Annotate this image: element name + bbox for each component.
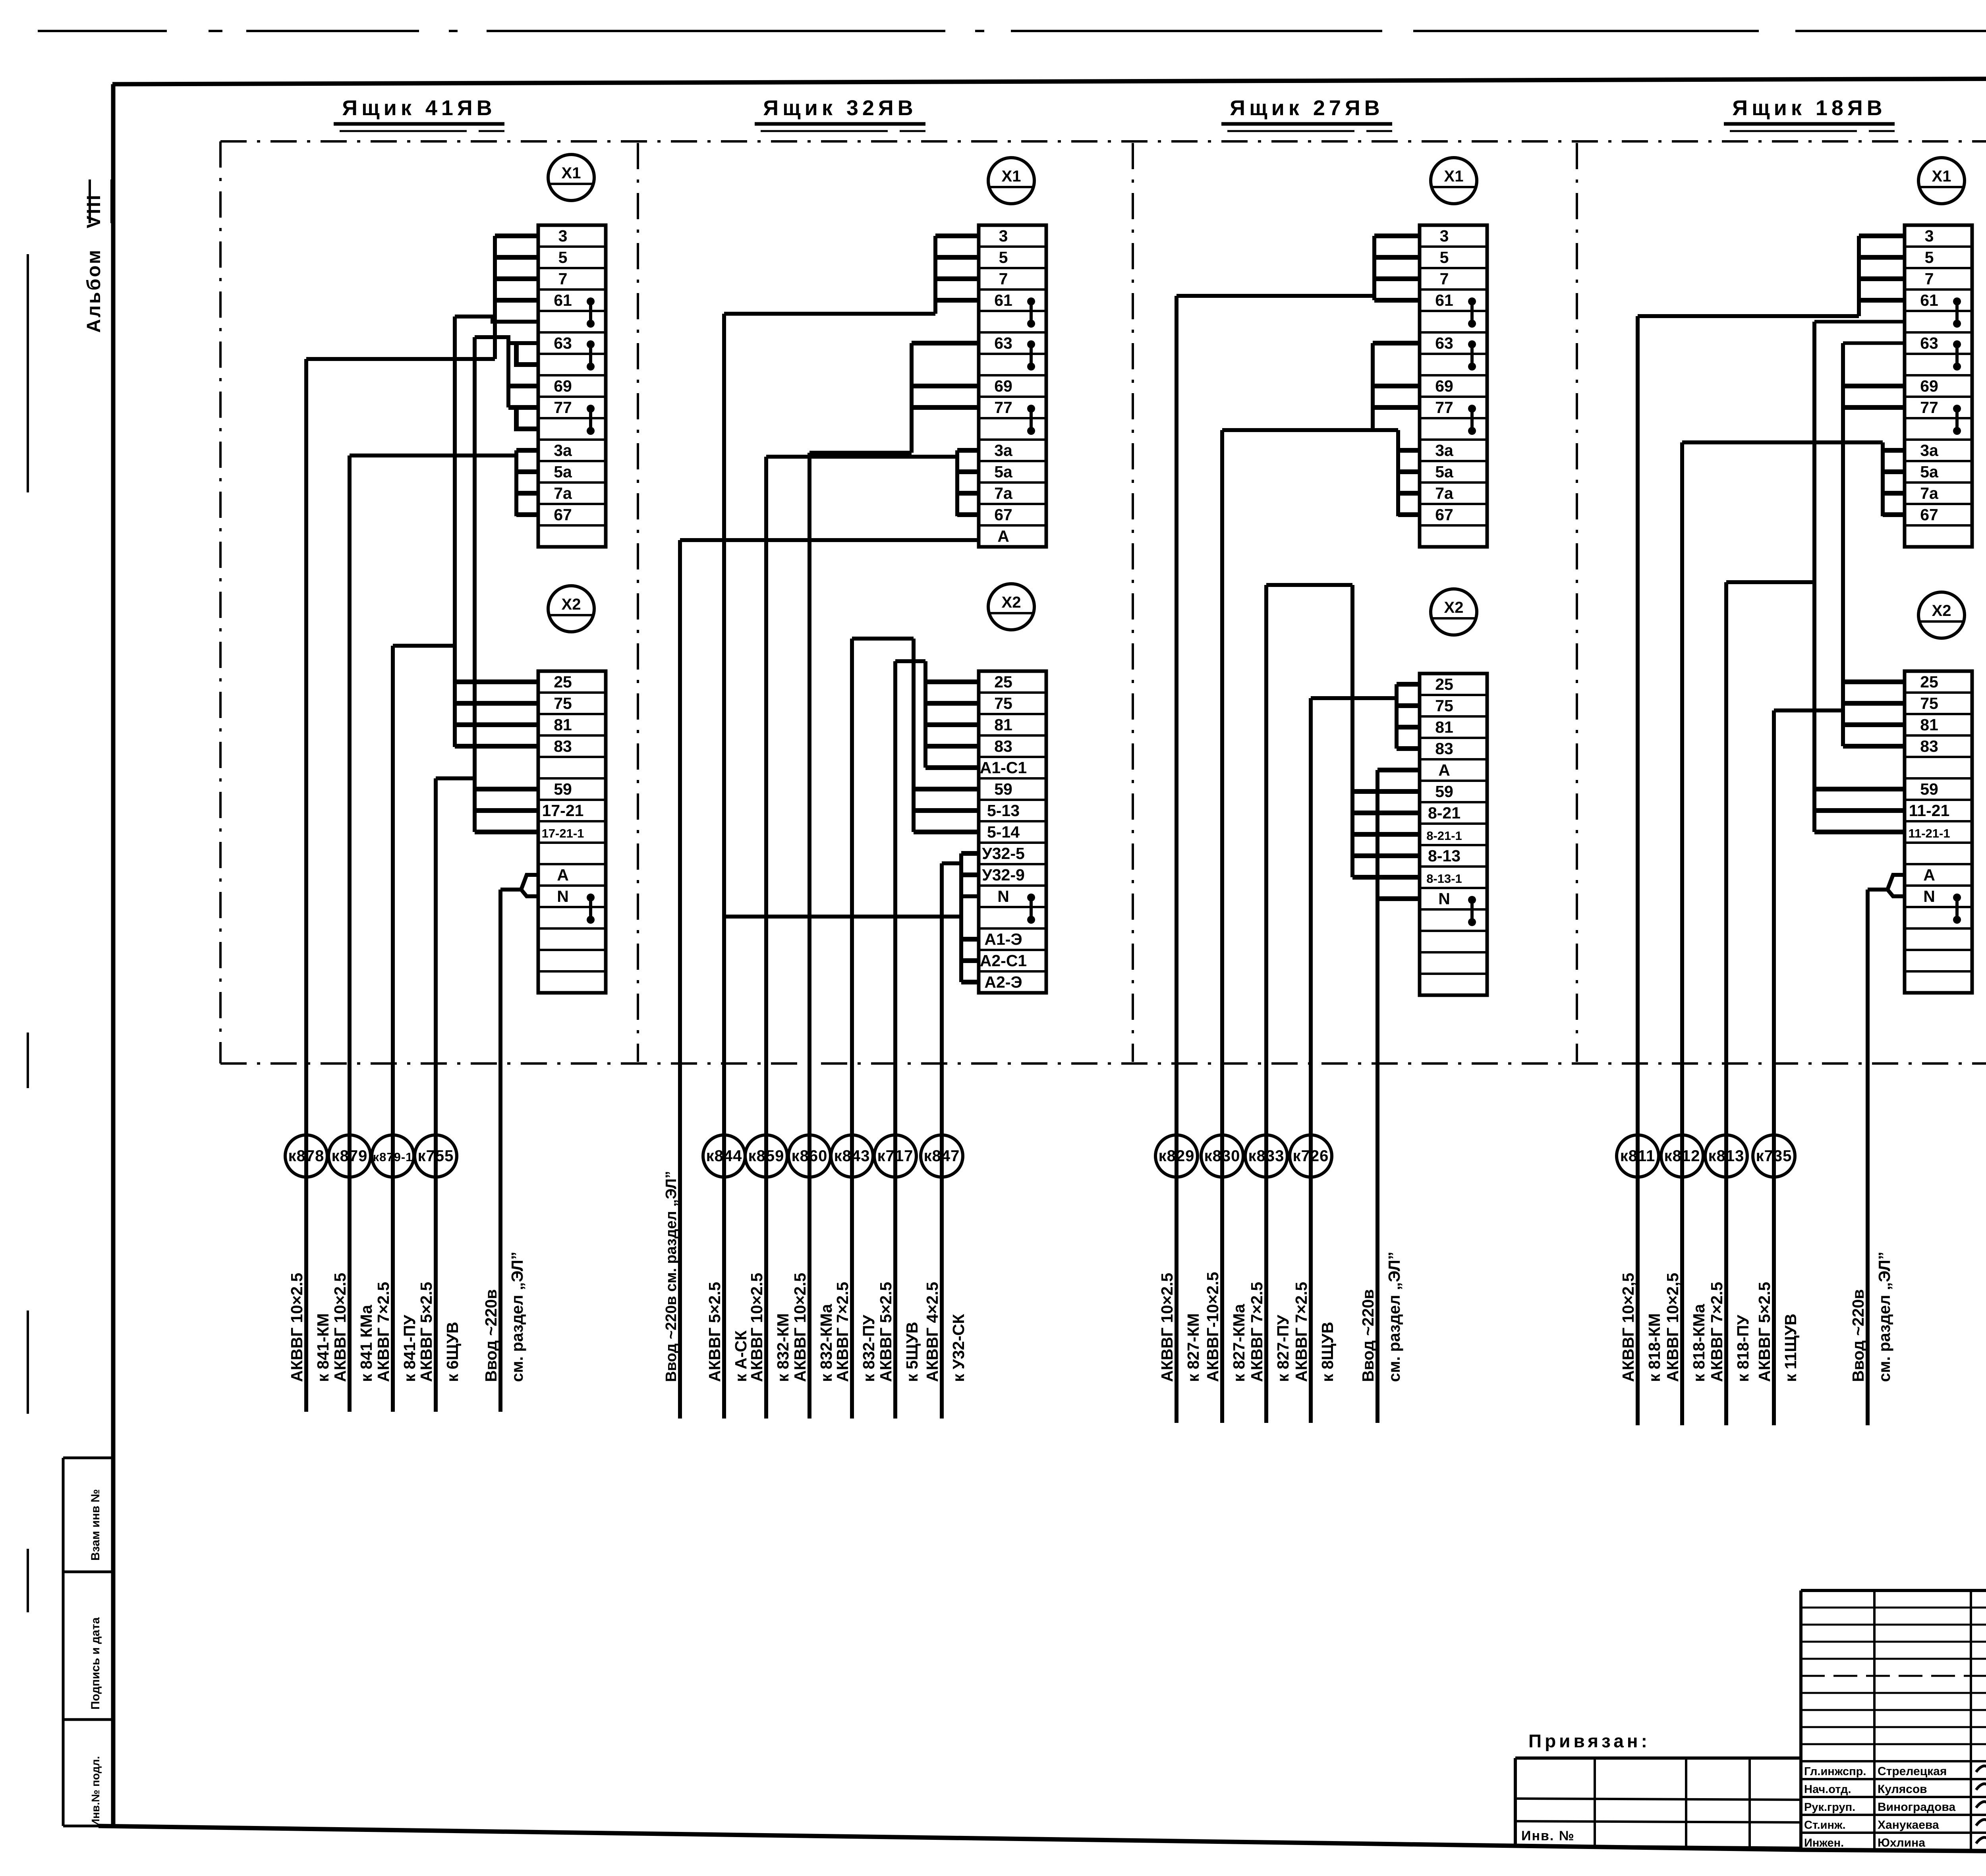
svg-text:АКВВГ 10×2.5: АКВВГ 10×2.5: [791, 1273, 809, 1382]
bus serving X1 terminals 3,5,7,61: [933, 236, 937, 314]
svg-text:АКВВГ 7×2.5: АКВВГ 7×2.5: [1292, 1282, 1310, 1382]
stub to X1 terminal at y=702: [1374, 276, 1420, 281]
stub to X1 terminal at y=756: [1374, 298, 1420, 303]
terminal strip X1 (Ящик 18ЯВ): [1905, 225, 1972, 547]
svg-text:к 827-КМа: к 827-КМа: [1230, 1303, 1248, 1382]
wire к812 horizontal to bus: [1682, 440, 1883, 444]
stub to X1 terminal at y=972: [1843, 384, 1905, 388]
wire к735 branch to X1 terminal 63: [1843, 342, 1905, 345]
svg-text:Инжен.: Инжен.: [1804, 1837, 1844, 1849]
signature squiggle Юхлина: [1976, 1837, 1986, 1847]
connector symbol X2: [988, 584, 1034, 630]
svg-text:к879: к879: [332, 1147, 368, 1165]
svg-text:61: 61: [1920, 291, 1938, 309]
svg-text:3: 3: [999, 227, 1008, 245]
svg-text:Ввод ~220в см. раздел „ЭЛ”: Ввод ~220в см. раздел „ЭЛ”: [663, 1171, 680, 1382]
stub to X2 terminal at y=2419: [961, 958, 979, 963]
connector symbol X2: [1918, 592, 1965, 638]
jumper X1 (Ящик 32ЯВ) rows 4-5: [1027, 297, 1035, 305]
jumper X2 (Ящик 41ЯВ) rows 11-12: [587, 894, 595, 901]
mains feed fork to X2 terminals А and N: [500, 875, 538, 890]
svg-text:83: 83: [1435, 739, 1453, 758]
terminal strip X1 (Ящик 27ЯВ): [1420, 225, 1487, 547]
stub to X2 terminal at y=2041: [914, 808, 979, 813]
svg-text:8-21: 8-21: [1428, 804, 1461, 822]
svg-text:к879-1: к879-1: [373, 1150, 413, 1164]
jumper X2 (Ящик 18ЯВ) rows 11-12: [1953, 894, 1961, 901]
stub to X2 terminal at y=1825: [1843, 722, 1905, 727]
wire к811 horizontal to bus: [1638, 314, 1859, 318]
wire к717 riser to X2: [923, 661, 927, 768]
mains feed wire Ввод ~220в vertical run: [1376, 770, 1379, 1423]
svg-text:7: 7: [558, 270, 568, 288]
stub to X2 terminal at y=2149: [961, 851, 979, 856]
svg-text:АКВВГ 7×2.5: АКВВГ 7×2.5: [1248, 1282, 1266, 1382]
svg-text:83: 83: [1920, 737, 1938, 755]
svg-text:59: 59: [1435, 782, 1453, 801]
svg-text:АКВВГ 5×2.5: АКВВГ 5×2.5: [877, 1282, 895, 1382]
svg-text:67: 67: [1920, 506, 1938, 524]
svg-text:7: 7: [1440, 270, 1449, 288]
bus serving X1 terminals 69,77: [506, 343, 510, 407]
wire к812 vertical run: [1680, 442, 1684, 1425]
wire к879-1 lower vertical run: [391, 646, 395, 1412]
svg-text:5: 5: [999, 248, 1008, 266]
wire к755 branch to X1 terminal 63: [475, 337, 538, 343]
stub to X1 terminal at y=756: [935, 298, 979, 303]
svg-text:У32-5: У32-5: [982, 844, 1025, 863]
left vertical stamp column: [63, 1457, 114, 1459]
cable marker к847: [921, 1135, 963, 1177]
svg-text:к829: к829: [1159, 1147, 1195, 1165]
stub to X1 terminal at y=594: [1374, 234, 1420, 238]
svg-text:7а: 7а: [554, 484, 572, 502]
signature squiggle Стрелецкая: [1976, 1765, 1986, 1776]
cable marker к859: [745, 1135, 787, 1177]
stub to X1 terminal at y=1242: [1398, 491, 1420, 496]
wire к879-1 branch to X1 terminal 61: [455, 317, 538, 322]
stub to X1 terminal at y=702: [935, 276, 979, 281]
stub to X2 terminal at y=2473: [961, 980, 979, 984]
stub to X2 terminal at y=1717: [925, 679, 979, 684]
wire к879 horizontal to bus: [350, 454, 516, 457]
svg-text:к 827-КМ: к 827-КМ: [1184, 1313, 1202, 1382]
cable marker к830: [1201, 1135, 1243, 1177]
svg-text:Юхлина: Юхлина: [1878, 1836, 1925, 1849]
svg-text:к 5ЩУВ: к 5ЩУВ: [903, 1322, 921, 1382]
svg-text:к 818-КМ: к 818-КМ: [1645, 1313, 1663, 1382]
svg-text:АКВВГ 10×2,5: АКВВГ 10×2,5: [1663, 1273, 1682, 1382]
svg-text:Ввод ~220в: Ввод ~220в: [482, 1289, 500, 1382]
cable marker к811: [1617, 1135, 1659, 1177]
svg-text:81: 81: [554, 716, 572, 734]
dash-dot separator between Ящик 27ЯВ and Ящик 18ЯВ: [1576, 143, 1578, 1062]
svg-text:АКВВГ 5×2.5: АКВВГ 5×2.5: [1755, 1282, 1773, 1382]
wire к755 jog: [436, 776, 475, 780]
svg-text:63: 63: [994, 334, 1012, 352]
svg-text:Привязан:: Привязан:: [1528, 1731, 1650, 1751]
stub to X2 terminal at y=2041: [1814, 808, 1905, 813]
terminal strip X2 (Ящик 32ЯВ): [979, 671, 1046, 993]
stub to X2 terminal at y=1993: [1352, 789, 1420, 794]
stub to X1 terminal at y=864: [1373, 341, 1420, 345]
svg-text:к 6ЩУВ: к 6ЩУВ: [443, 1322, 462, 1382]
svg-text:АКВВГ 10×2.5: АКВВГ 10×2.5: [1158, 1273, 1176, 1382]
stub to X2 terminal at y=1771: [1843, 701, 1905, 706]
stub to X1 terminal at y=648: [495, 255, 538, 260]
connector symbol X2: [548, 586, 594, 632]
stub X1 blank row 7: [516, 343, 538, 365]
stub to X1 terminal at y=1026: [912, 405, 979, 410]
terminal strip X2 (Ящик 27ЯВ): [1420, 674, 1487, 995]
svg-text:см. раздел „ЭЛ”: см. раздел „ЭЛ”: [1385, 1252, 1403, 1382]
stub to X1 terminal at y=756: [1859, 298, 1905, 303]
svg-text:3: 3: [1925, 227, 1934, 245]
svg-text:N: N: [557, 887, 569, 905]
connector symbol X2: [1431, 589, 1477, 635]
svg-text:АКВВГ-10×2.5: АКВВГ-10×2.5: [1204, 1272, 1222, 1382]
svg-text:81: 81: [1920, 716, 1938, 734]
bus serving X1 terminals 3а,5а,7а,67: [1396, 430, 1400, 516]
svg-text:к 11ЩУВ: к 11ЩУВ: [1781, 1314, 1800, 1382]
svg-text:X2: X2: [562, 596, 581, 613]
svg-text:АКВВГ 7×2.5: АКВВГ 7×2.5: [1708, 1282, 1726, 1382]
stub to X2 terminal at y=1825: [925, 722, 979, 727]
bus serving X1 terminals 3,5,7,61: [1372, 236, 1376, 300]
svg-text:АКВВГ 10×2,5: АКВВГ 10×2,5: [1619, 1273, 1637, 1382]
svg-text:Ввод ~220в: Ввод ~220в: [1849, 1289, 1867, 1382]
svg-text:А: А: [997, 527, 1009, 545]
stub to X2 terminal at y=2095: [475, 830, 538, 834]
stub to X1 terminal at y=1296: [516, 512, 538, 517]
svg-text:АКВВГ 7×2.5: АКВВГ 7×2.5: [374, 1282, 392, 1382]
signature squiggle Кулясов: [1976, 1783, 1986, 1794]
wire к878 horizontal to bus: [306, 357, 495, 361]
svg-text:А1-С1: А1-С1: [980, 759, 1027, 777]
wire к830 horizontal to bus: [1222, 428, 1398, 432]
bus serving X1 terminals 3а,5а,7а,67: [1881, 442, 1885, 516]
svg-text:У32-9: У32-9: [982, 866, 1025, 884]
stub to X2 terminal at y=2203: [961, 872, 979, 877]
svg-text:75: 75: [1920, 694, 1938, 712]
connector symbol X1: [548, 154, 594, 201]
svg-text:8-21-1: 8-21-1: [1426, 829, 1462, 843]
svg-text:77: 77: [1435, 398, 1453, 417]
terminal strip X1 (Ящик 41ЯВ): [538, 225, 606, 547]
svg-text:к 841-ПУ: к 841-ПУ: [400, 1315, 419, 1382]
stub to X2 terminal at y=1879: [455, 744, 538, 749]
svg-text:Ханукаева: Ханукаева: [1878, 1818, 1939, 1832]
stub to X1 terminal at y=1188: [516, 469, 538, 474]
mains feed stub to X2 terminal А: [1377, 768, 1420, 772]
stub to X1 terminal at y=1188: [957, 469, 979, 474]
terminal strip X2 (Ящик 41ЯВ): [538, 671, 606, 993]
cable marker к813: [1705, 1135, 1747, 1177]
stub to X2 terminal at y=1831: [1397, 725, 1420, 730]
svg-text:к813: к813: [1708, 1147, 1745, 1165]
dash-dot separator between Ящик 32ЯВ and Ящик 27ЯВ: [1132, 143, 1134, 1062]
stub to X1 terminal at y=1296: [1398, 512, 1420, 517]
svg-text:77: 77: [994, 398, 1012, 417]
stub to X1 terminal at y=1188: [1398, 469, 1420, 474]
svg-text:Виноградова: Виноградова: [1878, 1801, 1955, 1814]
sheet border left: [111, 84, 116, 1826]
stub to X2 terminal at y=2095: [1814, 830, 1905, 834]
sheet border bottom: [99, 1826, 1986, 1855]
terminal strip X2 (Ящик 18ЯВ): [1905, 671, 1972, 993]
stub to X2 terminal at y=2095: [914, 830, 979, 834]
stub to X1 terminal at y=756: [495, 298, 538, 303]
svg-text:N: N: [1438, 890, 1450, 908]
stub to X1 terminal at y=864: [912, 341, 979, 345]
signature squiggle Ханукаева: [1976, 1819, 1986, 1830]
svg-text:см. раздел „ЭЛ”: см. раздел „ЭЛ”: [508, 1252, 526, 1382]
svg-text:АКВВГ 10×2.5: АКВВГ 10×2.5: [748, 1273, 766, 1382]
svg-text:к 841 КМа: к 841 КМа: [357, 1305, 375, 1382]
wire к844 vertical run: [722, 314, 726, 1419]
svg-text:7а: 7а: [994, 484, 1013, 502]
jumper X1 (Ящик 41ЯВ) rows 4-5: [587, 297, 595, 305]
mains feed wire Ввод ~220в (Ящик 32ЯВ): [678, 540, 682, 1419]
wire к717 vertical run: [893, 661, 897, 1419]
wire к830 vertical run: [1220, 430, 1224, 1423]
stub to X1 terminal at y=702: [495, 276, 538, 281]
wire к813 jog: [1726, 580, 1814, 584]
stub to X1 terminal at y=594: [495, 234, 538, 238]
revision stamp table grid: [1801, 1589, 1986, 1592]
svg-text:Ст.инж.: Ст.инж.: [1804, 1819, 1846, 1832]
jumper X1 (Ящик 18ЯВ) rows 9-10: [1953, 405, 1961, 413]
wire к843 riser to X2: [912, 639, 916, 832]
svg-text:67: 67: [994, 506, 1012, 524]
svg-text:Взам инв №: Взам инв №: [89, 1489, 102, 1561]
wire к829 horizontal to bus: [1177, 294, 1374, 298]
terminal strip X1 (Ящик 32ЯВ): [979, 225, 1046, 547]
svg-text:к 832-КМ: к 832-КМ: [774, 1313, 792, 1382]
svg-text:61: 61: [994, 291, 1012, 309]
stub to X2 terminal at y=1987: [1814, 787, 1905, 791]
wire к717 jog: [895, 659, 925, 663]
svg-text:к812: к812: [1664, 1147, 1700, 1165]
cable marker к717: [874, 1135, 916, 1177]
svg-text:59: 59: [1920, 780, 1938, 798]
svg-text:69: 69: [1920, 377, 1938, 395]
svg-text:69: 69: [554, 377, 572, 395]
stub to X2 terminal at y=1717: [455, 679, 538, 684]
cable marker к812: [1661, 1135, 1703, 1177]
svg-text:АКВВГ 5×2.5: АКВВГ 5×2.5: [705, 1282, 724, 1382]
svg-text:59: 59: [994, 780, 1012, 798]
wire к735 riser: [1841, 343, 1845, 746]
paper left edge dashes: [27, 254, 29, 492]
wire к879-1 riser: [453, 317, 457, 747]
mains feed horizontal to X1 terminal А: [680, 538, 979, 542]
stub to X1 terminal at y=972: [1373, 384, 1420, 388]
svg-text:А: А: [1923, 866, 1935, 884]
wire к847 jog: [942, 861, 961, 865]
stub to X1 terminal at y=1134: [516, 448, 538, 453]
svg-text:X1: X1: [1932, 168, 1951, 185]
svg-text:А1-Э: А1-Э: [984, 930, 1022, 948]
stub to X1 terminal at y=1026: [1843, 405, 1905, 410]
small table left of stamp: [1515, 1756, 1801, 1760]
wire к879-1 jog: [393, 644, 455, 648]
connector symbol X1: [1431, 158, 1477, 204]
stub to X1 terminal at y=1296: [957, 512, 979, 517]
jumper X1 (Ящик 41ЯВ) rows 9-10: [587, 405, 595, 413]
cable marker к726: [1290, 1135, 1332, 1177]
svg-text:к844: к844: [706, 1147, 742, 1165]
svg-text:А2-С1: А2-С1: [980, 952, 1027, 970]
svg-text:АКВВГ 5×2.5: АКВВГ 5×2.5: [417, 1282, 435, 1382]
svg-text:25: 25: [554, 673, 572, 691]
svg-text:5а: 5а: [1435, 463, 1454, 481]
svg-text:N: N: [997, 887, 1009, 905]
svg-text:X1: X1: [562, 164, 581, 182]
wire к860 horizontal to bus: [809, 451, 912, 455]
signature squiggle Виноградова: [1976, 1801, 1986, 1812]
svg-text:АКВВГ 4×2.5: АКВВГ 4×2.5: [923, 1282, 941, 1382]
jumper X1 (Ящик 18ЯВ) rows 4-5: [1953, 297, 1961, 305]
svg-text:X2: X2: [1002, 594, 1021, 611]
wire к726 jog: [1311, 696, 1397, 700]
cable marker к829: [1155, 1135, 1198, 1177]
svg-text:Ввод ~220в: Ввод ~220в: [1359, 1289, 1377, 1382]
svg-text:63: 63: [1920, 334, 1938, 352]
svg-text:N: N: [1923, 887, 1935, 905]
stub to X1 terminal at y=1296: [1883, 512, 1905, 517]
jumper X1 (Ящик 27ЯВ) rows 6-7: [1468, 340, 1476, 348]
stub to X2 terminal at y=1879: [925, 744, 979, 749]
svg-text:69: 69: [1435, 377, 1453, 395]
svg-text:5-13: 5-13: [987, 801, 1020, 820]
equipment enclosure dash-dot border top: [220, 140, 1986, 143]
bus serving X1 terminals 3,5,7,61: [1857, 236, 1861, 316]
stub to X1 terminal at y=1242: [957, 491, 979, 496]
svg-text:81: 81: [1435, 718, 1453, 736]
wire к755 riser: [473, 337, 477, 832]
svg-text:7: 7: [999, 270, 1008, 288]
stub to X2 terminal at y=1825: [455, 722, 538, 727]
svg-text:X2: X2: [1932, 602, 1951, 620]
jumper X1 (Ящик 32ЯВ) rows 6-7: [1027, 340, 1035, 348]
stub to X2 terminal at y=2041: [475, 808, 538, 813]
stub to X1 terminal at y=1134: [957, 448, 979, 453]
wire к813 branch to X1 terminal 61 lower row: [1814, 320, 1905, 324]
wire к829 vertical run: [1175, 296, 1178, 1423]
stub to X2 terminal at y=1723: [1397, 682, 1420, 687]
svg-text:63: 63: [1435, 334, 1453, 352]
svg-text:к859: к859: [748, 1147, 784, 1165]
stub to X2 terminal at y=2365: [961, 937, 979, 942]
stub to X1 terminal at y=1026: [1373, 405, 1420, 410]
svg-text:АКВВГ 10×2.5: АКВВГ 10×2.5: [331, 1273, 349, 1382]
stub to X2 terminal at y=1771: [925, 701, 979, 706]
svg-text:81: 81: [994, 716, 1012, 734]
svg-text:61: 61: [554, 291, 572, 309]
svg-text:75: 75: [994, 694, 1012, 712]
svg-text:Стрелецкая: Стрелецкая: [1878, 1765, 1947, 1778]
stub to X2 terminal at y=1987: [914, 787, 979, 791]
stub to X2 terminal at y=1879: [1843, 744, 1905, 749]
wire к860 vertical run: [808, 453, 811, 1419]
svg-text:75: 75: [1435, 697, 1453, 715]
stub to X2 terminal at y=1777: [1397, 703, 1420, 708]
svg-text:3а: 3а: [994, 441, 1013, 459]
wire к879 vertical run: [348, 455, 352, 1412]
wire к833 riser to X2: [1350, 585, 1354, 877]
stub to X1 terminal at y=972: [912, 384, 979, 388]
connector symbol X1: [1918, 158, 1965, 204]
stub to X1 terminal at y=1188: [1883, 469, 1905, 474]
jumper X2 (Ящик 27ЯВ) rows 11-12: [1468, 896, 1476, 904]
svg-text:к 832-КМа: к 832-КМа: [817, 1303, 835, 1382]
svg-text:25: 25: [1920, 673, 1938, 691]
bus serving X1 terminals 3а,5а,7а,67: [955, 450, 959, 516]
svg-text:5а: 5а: [554, 463, 572, 481]
wire к844 neutral branch: [724, 896, 979, 917]
svg-text:83: 83: [994, 737, 1012, 755]
stub X1 blank row 10: [516, 407, 538, 429]
wire к843 jog: [852, 637, 914, 641]
svg-text:5-14: 5-14: [987, 823, 1020, 841]
jumper X2 (Ящик 32ЯВ) rows 11-12: [1027, 894, 1035, 901]
cable marker к878: [285, 1135, 327, 1177]
svg-text:5: 5: [1925, 248, 1934, 266]
equipment enclosure dash-dot border bottom: [220, 1062, 1986, 1065]
bus serving X1 terminals 3,5,7,61: [493, 236, 497, 359]
svg-text:X1: X1: [1002, 168, 1021, 185]
mains feed fork to X2 terminals А and N: [1868, 875, 1905, 890]
svg-text:к 8ЩУВ: к 8ЩУВ: [1318, 1322, 1337, 1382]
jumper X1 (Ящик 41ЯВ) rows 6-7: [587, 340, 595, 348]
stub to X2 terminal at y=1771: [455, 701, 538, 706]
svg-text:к833: к833: [1248, 1147, 1285, 1165]
svg-text:63: 63: [554, 334, 572, 352]
svg-text:к878: к878: [288, 1147, 325, 1165]
sheet border top: [112, 77, 1986, 84]
stub to X2 terminal at y=1987: [475, 787, 538, 791]
wire к726 riser to X2: [1395, 684, 1399, 749]
svg-text:к860: к860: [792, 1147, 828, 1165]
bus serving X2 terminals У32-5,У32-9 and А1-Э,А2-С1,А2-Э: [959, 853, 963, 982]
svg-text:к 818-КМа: к 818-КМа: [1690, 1303, 1708, 1382]
svg-text:69: 69: [994, 377, 1012, 395]
svg-text:8-13-1: 8-13-1: [1426, 872, 1462, 886]
wire к878 vertical run: [304, 359, 308, 1412]
stub to X1 terminal at y=648: [1374, 255, 1420, 260]
svg-text:к755: к755: [418, 1147, 454, 1165]
svg-text:к 841-КМ: к 841-КМ: [314, 1313, 332, 1382]
svg-text:X2: X2: [1444, 599, 1464, 616]
svg-text:11-21: 11-21: [1909, 801, 1950, 820]
wire к726 vertical run: [1309, 698, 1313, 1423]
svg-text:8-13: 8-13: [1428, 847, 1461, 865]
stub to X1 terminal at y=648: [1859, 255, 1905, 260]
stub to X2 terminal at y=1717: [1843, 679, 1905, 684]
svg-text:X1: X1: [1444, 168, 1464, 185]
stub to X2 terminal at y=2101: [1352, 832, 1420, 837]
stub to X1 terminal at y=972: [508, 384, 538, 388]
wire к843 vertical run: [850, 639, 854, 1419]
svg-text:7а: 7а: [1920, 484, 1939, 502]
cable marker к735: [1753, 1135, 1795, 1177]
svg-text:Ящик 32ЯВ: Ящик 32ЯВ: [763, 96, 917, 120]
jumper X1 (Ящик 27ЯВ) rows 9-10: [1468, 405, 1476, 413]
wire к844 horizontal to bus: [724, 312, 935, 316]
svg-text:25: 25: [994, 673, 1012, 691]
svg-text:к 827-ПУ: к 827-ПУ: [1274, 1315, 1292, 1382]
